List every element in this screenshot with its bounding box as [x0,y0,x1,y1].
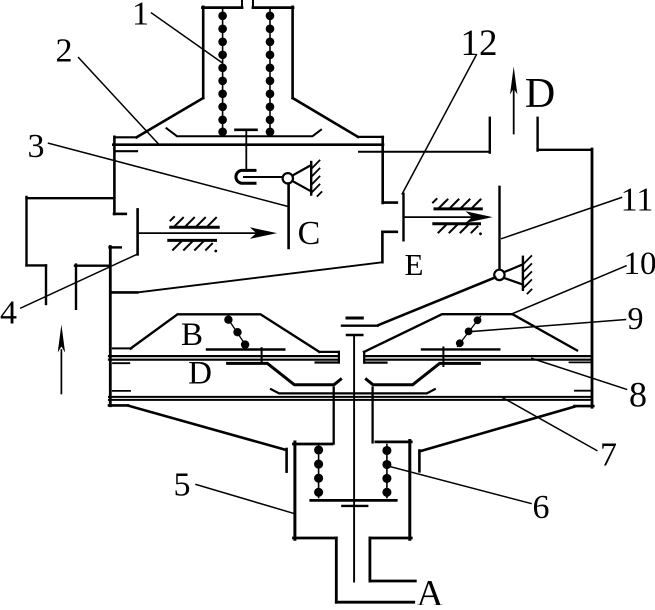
svg-text:6: 6 [533,489,550,526]
spring 6 left wire [318,445,320,498]
svg-text:5: 5 [174,467,191,504]
inlet duct 4 inner top [75,265,110,267]
inlet tube left wall [241,0,243,8]
leader 8 [532,358,627,389]
pivot support hatching C [311,161,321,197]
deck gap left vertical [338,352,340,363]
outlet pipe left wall [335,538,338,602]
hood left flange [115,136,137,138]
svg-text:11: 11 [621,182,654,219]
casing top line [113,143,383,146]
shaft tee bar bottom [342,505,367,507]
spindle tee bar [347,334,362,337]
seal hatch lower E strokes [439,225,478,233]
inlet baffle piece left [136,209,139,254]
lower stub y391 right [575,390,592,392]
deck stub y363 right [570,361,593,363]
deck gap right vertical [363,352,365,363]
pivot support links C [292,165,311,191]
spring seat bar [311,499,396,502]
deck lower flange left [316,361,339,363]
casing right upper stub [383,201,397,204]
hood right slope [293,98,358,137]
pivot circle C [283,173,293,183]
flow arrow D shaft [513,88,515,134]
flow arrow C head [250,227,277,239]
bead chain B wire [227,317,247,347]
feed up arrow head [58,325,65,353]
hood cap right [253,6,293,9]
seal hatch lower C dot [214,250,217,253]
hood right flange [358,136,383,138]
cone left drip wall [285,449,288,472]
housing 5 top left [294,443,332,446]
seal hatch lower C baseline [169,239,216,242]
seal hatch lower E dot [479,232,482,235]
housing 5 right wall [408,441,411,540]
casing left wall lower [109,247,112,406]
svg-text:A: A [416,573,444,605]
svg-text:12: 12 [461,23,498,64]
housing neck wall left [333,388,335,444]
flow arrow E shaft [404,216,478,218]
bead chain B dots [224,316,249,349]
deck upper flange left [319,351,339,353]
valve link bar [244,176,283,178]
housing bottom left [294,537,337,540]
svg-text:D: D [188,356,212,392]
leader 2 [79,58,159,144]
right bead chain wire [269,9,271,133]
outlet duct left wall [489,118,491,153]
housing neck wall right [371,388,373,443]
svg-text:9: 9 [628,300,644,336]
pivot circle E [494,270,504,280]
valve hook [236,170,255,183]
leader 5 [196,485,293,514]
chamber floor diagonal [137,262,381,292]
seal hatch upper E baseline [435,207,481,210]
svg-text:B: B [181,317,203,353]
lever 11 [498,187,500,270]
svg-text:C: C [298,215,321,252]
outlet pipe inner bottom [370,580,415,583]
seal hatch upper E strokes [433,199,481,208]
spring 6 left dots [314,445,323,496]
bowl B base stub left [113,347,132,349]
cone left [128,406,286,450]
svg-text:3: 3 [28,128,45,165]
deck bolt right [442,348,444,367]
casing right mid stub [382,231,396,234]
deck plate 8 upper line left [109,355,339,357]
casing right bottom stub [575,405,594,408]
inlet duct 4 top [27,197,114,199]
casing right wall mid [381,232,384,262]
seal hatch lower C strokes [173,242,212,250]
bowl 10 right trapezoid [364,314,577,352]
deck lower flange right [364,362,386,364]
outlet duct right wall [536,118,538,151]
lower plate 7 line a [109,396,592,398]
spindle cap bar [347,317,362,320]
funnel D right [366,363,479,384]
outlet pipe bottom [336,601,413,604]
lower stub y391 left [113,390,130,392]
deck plate 8 upper line right [364,355,592,357]
casing left wall upper [113,137,116,214]
housing 5 top right [376,440,411,443]
leader 1 [152,13,222,62]
inlet tube right wall [252,0,254,8]
feed up arrow shaft [60,350,62,394]
casing left bottom stub [109,404,128,407]
inlet duct 4 bottom [27,264,47,266]
flow arrow E head [466,211,493,223]
hood left slope [137,98,204,137]
spring 6 right dots [382,446,391,497]
svg-text:D: D [525,71,555,117]
casing top left stub [115,150,137,152]
chamber floor ledge [111,291,138,294]
outlet duct bottom left line [359,151,490,153]
outer right wall [591,149,594,407]
housing 5 left wall [293,442,296,539]
lower plate 7 line b [109,399,592,401]
deck plate 8 lower line right [364,359,592,361]
left bead chain dots [218,11,227,136]
line under right bowl [422,348,499,350]
inlet duct 4 left wall [25,197,27,265]
svg-text:10: 10 [624,246,655,282]
deck bolt left [261,348,263,363]
lever arm diagonal [378,277,496,325]
cone right [420,407,575,452]
leader 10 [513,266,626,314]
line under B [207,348,284,350]
svg-text:4: 4 [0,295,17,332]
casing left wall top stub [110,246,121,248]
feed tube tee bar [236,129,257,132]
hood neck right wall [291,7,294,98]
cone right drip wall [418,451,421,472]
central shaft [353,336,355,582]
casing right wall upper [381,137,384,203]
seal hatch lower E baseline [434,222,480,225]
svg-text:E: E [405,247,424,282]
leader 7 [502,397,597,451]
distributor tray [167,128,322,136]
outlet duct bottom right line [538,149,592,151]
flow arrow C shaft [139,232,262,234]
lever C [287,184,290,249]
bowl B left slope [131,314,320,352]
leader 11 [502,198,622,239]
bead chain 9 dots [456,316,482,347]
collecting dish [271,389,435,393]
leader 9 [468,320,625,332]
deck stub y363 left [113,362,129,364]
inlet duct 4 inner wall [75,265,77,309]
pivot support links E [504,264,523,284]
deck plate 8 lower line left [109,359,339,361]
chamber E baffle piece [402,194,404,241]
leader 12 [402,55,476,194]
hood cap left [203,6,243,9]
pivot support hatching E [523,256,532,294]
svg-text:1: 1 [132,0,149,33]
casing left lip stub [114,213,126,216]
hood neck left wall [202,7,205,98]
lever arm end bar [342,325,378,327]
pivot support wall C [310,162,312,195]
housing bottom right [370,537,411,540]
bead chain 9 wire [458,317,481,347]
seal hatch upper C baseline [171,226,218,229]
right bead chain dots [266,11,275,136]
svg-text:8: 8 [629,375,647,415]
funnel D left [228,363,341,384]
inlet duct 4 step wall [45,265,47,304]
pivot support wall E [522,257,524,290]
left bead chain wire [222,9,224,133]
feed tube stem [245,131,247,169]
flow arrow D head [510,67,517,95]
seal hatch upper C strokes [171,217,217,226]
leader 6 [387,466,531,504]
svg-text:7: 7 [600,437,617,474]
svg-text:2: 2 [56,33,73,70]
spring 6 right wire [386,445,388,498]
leader 3 [49,143,288,206]
outlet pipe inner wall [368,538,371,581]
leader 4 [21,254,137,308]
